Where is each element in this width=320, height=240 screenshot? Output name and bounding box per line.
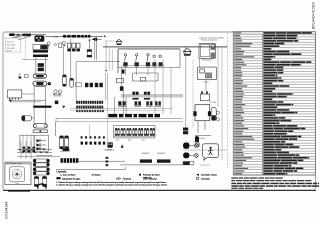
svg-text:B02/B010: B02/B010 [142,153,149,155]
svg-text:DPLA424-019GV: DPLA424-019GV [311,1,315,29]
svg-text:Conexión a tierra: Conexión a tierra [201,174,218,177]
svg-text:50 Hz: 50 Hz [7,50,12,52]
svg-text:B01a: B01a [116,140,120,142]
svg-text:Fusibles de los plexos: Fusibles de los plexos [201,39,218,41]
svg-text:B02/B010: B02/B010 [158,153,165,155]
svg-text:N: Neutro: N: Neutro [92,174,102,177]
svg-text:Conector: Conector [149,177,158,180]
svg-text:B01b: B01b [128,140,132,142]
svg-text:Conexión: Conexión [201,178,211,180]
svg-text:L: Con corriente: L: Con corriente [61,174,77,177]
svg-text:Interruptores: Interruptores [202,59,212,62]
svg-text:1. Caliente del agua embargo: 1. Caliente del agua embargo marriage bl… [56,181,166,184]
svg-text:Terminal: Terminal [123,177,131,180]
svg-text:B01c: B01c [142,140,146,142]
svg-text:Calentador de agua: Calentador de agua [62,177,81,180]
svg-text:B02 B010: B02 B010 [107,149,114,151]
svg-text:Leyenda: Leyenda [57,171,67,174]
svg-text:220-240V: 220-240V [210,102,218,104]
svg-text:B02-B010: B02-B010 [199,138,206,140]
svg-text:230 V: 230 V [193,142,197,144]
svg-text:20019418A: 20019418A [5,201,9,219]
svg-text:2. Caliente del agua embargo: 2. Caliente del agua embargo marriage th… [56,183,167,186]
svg-text:Neutro (N): Neutro (N) [7,43,16,46]
svg-text:Protector de tierra: Protector de tierra [143,174,160,177]
svg-text:Fase (L): Fase (L) [7,41,14,43]
